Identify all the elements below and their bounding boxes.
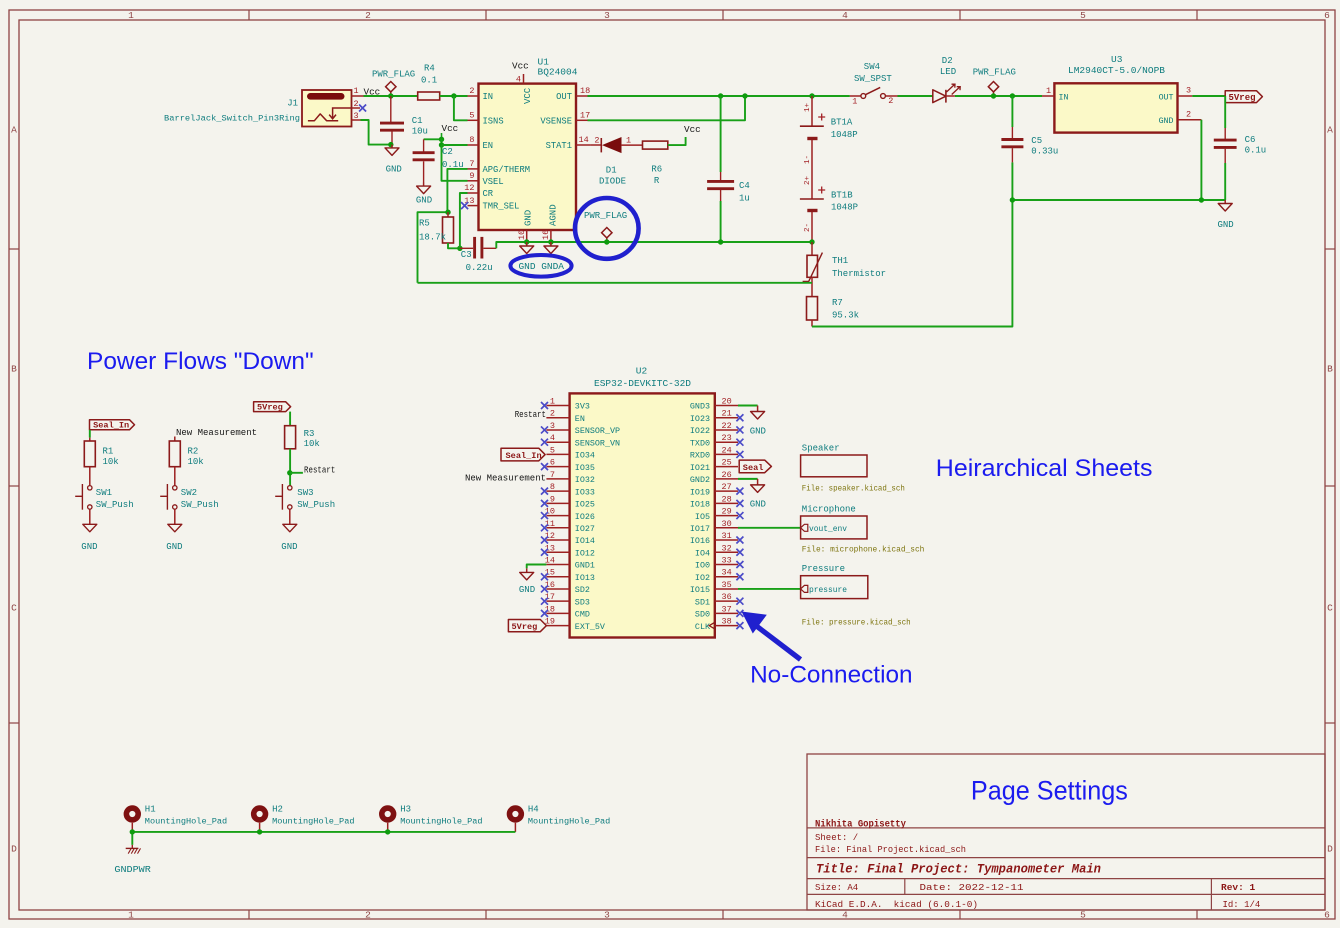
svg-text:6: 6 xyxy=(550,458,555,468)
svg-text:IO16: IO16 xyxy=(690,536,710,546)
SW2 to GND xyxy=(174,509,176,524)
U2 pin13 IO12 xyxy=(546,551,569,553)
svg-text:1: 1 xyxy=(626,136,631,146)
global label Seal at U2 pin25 xyxy=(739,460,771,473)
svg-text:GND: GND xyxy=(386,165,402,175)
diode D2 LED xyxy=(933,90,946,103)
svg-text:IO18: IO18 xyxy=(690,500,710,510)
svg-text:Seal_In: Seal_In xyxy=(506,451,542,461)
svg-text:Vcc: Vcc xyxy=(512,61,529,72)
svg-text:D1: D1 xyxy=(606,166,617,176)
U1 pin10 GND bottom xyxy=(526,230,528,242)
svg-text:IN: IN xyxy=(483,92,494,102)
resistor R3 xyxy=(285,426,296,449)
svg-text:SW3: SW3 xyxy=(297,488,313,498)
svg-text:IO15: IO15 xyxy=(690,585,710,595)
svg-text:2: 2 xyxy=(353,99,358,109)
svg-text:IO13: IO13 xyxy=(575,573,595,583)
U2 pin16 SD2 xyxy=(546,588,569,590)
svg-text:PWR_FLAG: PWR_FLAG xyxy=(973,67,1016,77)
svg-text:1: 1 xyxy=(128,909,134,920)
svg-text:pressure: pressure xyxy=(809,585,847,595)
svg-text:GND: GND xyxy=(166,542,182,552)
J1 pin2 no-connect xyxy=(352,107,361,109)
power flag PWR_FLAG circled xyxy=(602,228,612,243)
svg-text:Microphone: Microphone xyxy=(802,505,856,515)
svg-text:BT1A: BT1A xyxy=(831,118,853,128)
wire R4 to U1 IN xyxy=(440,95,468,97)
U1 pin5 ISNS xyxy=(468,119,479,121)
wire C2 top to Vcc node xyxy=(424,138,442,140)
microcontroller U2 ESP32 body xyxy=(570,393,715,637)
svg-text:5: 5 xyxy=(1080,10,1086,21)
svg-text:IO22: IO22 xyxy=(690,426,710,436)
junction pin10 GND rail xyxy=(524,239,529,244)
svg-text:AGND: AGND xyxy=(549,204,559,226)
svg-text:IO26: IO26 xyxy=(575,512,595,522)
svg-text:10: 10 xyxy=(517,230,527,240)
U1 pin13 TMR_SEL no-connect xyxy=(468,205,479,207)
svg-text:6: 6 xyxy=(1324,909,1330,920)
svg-text:File: Final Project.kicad_sch: File: Final Project.kicad_sch xyxy=(815,845,966,855)
svg-text:0.1u: 0.1u xyxy=(1245,146,1267,156)
svg-text:DIODE: DIODE xyxy=(599,177,626,187)
svg-text:IO0: IO0 xyxy=(695,561,710,571)
svg-text:IO14: IO14 xyxy=(575,536,595,546)
power flag PWR_FLAG near U3 xyxy=(988,82,998,97)
svg-text:1: 1 xyxy=(1046,86,1051,96)
U2 pin21 IO23 xyxy=(715,417,738,419)
svg-text:95.3k: 95.3k xyxy=(832,311,859,321)
ground below U1 pin10 xyxy=(526,242,528,246)
wire R6 to Vcc xyxy=(668,137,686,145)
wire Restart stub xyxy=(290,472,303,474)
svg-text:GND: GND xyxy=(519,585,535,595)
svg-text:25: 25 xyxy=(722,458,732,468)
U1 pin14 STAT1 xyxy=(576,144,591,146)
wire U3 OUT to 5Vreg label xyxy=(1192,95,1225,97)
U2 pin4 SENSOR_VN xyxy=(546,441,569,443)
ground at U2 pin20 xyxy=(757,406,759,412)
J1 pin3 stub xyxy=(352,119,361,121)
ground right rail xyxy=(1224,200,1226,204)
svg-text:0.33u: 0.33u xyxy=(1031,146,1058,156)
svg-text:IO2: IO2 xyxy=(695,573,710,583)
svg-text:Vcc: Vcc xyxy=(684,124,701,135)
svg-text:R6: R6 xyxy=(651,164,662,174)
wire D2 to U3 xyxy=(955,95,1042,97)
global label 5Vreg right xyxy=(1225,91,1262,103)
svg-text:GND: GND xyxy=(1217,220,1233,230)
ground below SW2 xyxy=(174,523,176,525)
svg-text:A: A xyxy=(11,125,17,136)
svg-text:A: A xyxy=(1327,125,1333,136)
battery BT1B xyxy=(811,140,813,199)
U2 pin28 IO18 xyxy=(715,502,738,504)
svg-text:C: C xyxy=(1327,603,1333,614)
battery bottom pin xyxy=(811,212,813,242)
sheet Pressure xyxy=(801,576,868,599)
svg-text:32: 32 xyxy=(722,543,732,553)
op-amp U1 BQ24004 body xyxy=(479,84,577,230)
svg-text:5: 5 xyxy=(469,111,474,121)
svg-text:IN: IN xyxy=(1059,93,1069,102)
junction PWR_FLAG2 xyxy=(991,93,996,98)
svg-text:IO34: IO34 xyxy=(575,451,595,461)
svg-text:C: C xyxy=(11,603,17,614)
svg-text:H4: H4 xyxy=(528,804,539,814)
svg-text:TXD0: TXD0 xyxy=(690,438,710,448)
svg-text:37: 37 xyxy=(722,604,732,614)
mounting hole H3 xyxy=(382,808,394,820)
J1 sleeve bar xyxy=(307,93,345,100)
wire U2 pin30 to Microphone sheet xyxy=(738,527,801,529)
svg-text:18: 18 xyxy=(580,86,590,96)
svg-text:23: 23 xyxy=(722,433,732,443)
svg-text:18.7k: 18.7k xyxy=(419,233,446,243)
resistor R7 xyxy=(807,297,818,320)
svg-text:8: 8 xyxy=(550,482,555,492)
U2 pin20 GND3 xyxy=(715,405,738,407)
wire EN node down to VSEL xyxy=(442,145,468,181)
svg-text:SENSOR_VN: SENSOR_VN xyxy=(575,438,620,448)
svg-text:GNDPWR: GNDPWR xyxy=(114,864,151,875)
wire GND rail right xyxy=(1012,199,1225,201)
svg-text:10u: 10u xyxy=(412,126,428,136)
svg-text:7: 7 xyxy=(550,470,555,480)
svg-text:1: 1 xyxy=(550,397,555,407)
svg-text:33: 33 xyxy=(722,555,732,565)
sheet pin vout_env xyxy=(801,524,808,531)
junction Restart node xyxy=(287,470,292,475)
wire U2 pin14 GND1 xyxy=(527,564,547,568)
junction VSENSE riser xyxy=(742,93,747,98)
svg-text:R7: R7 xyxy=(832,298,843,308)
svg-text:1u: 1u xyxy=(739,194,750,204)
title block column lines xyxy=(904,879,906,895)
wire OUT rail xyxy=(588,95,850,97)
svg-text:R1: R1 xyxy=(103,447,114,457)
svg-text:IO12: IO12 xyxy=(575,548,595,558)
U2 pin15 IO13 xyxy=(546,576,569,578)
svg-text:1: 1 xyxy=(353,86,358,96)
svg-text:H2: H2 xyxy=(272,804,283,814)
wire R7 bottom to GND riser xyxy=(811,320,813,327)
svg-text:GND: GND xyxy=(81,542,97,552)
wire lower rail to TH1/R7 node xyxy=(418,282,813,284)
svg-text:3V3: 3V3 xyxy=(575,402,590,412)
svg-text:EN: EN xyxy=(575,414,585,424)
svg-text:IO33: IO33 xyxy=(575,487,595,497)
svg-text:U3: U3 xyxy=(1111,54,1123,65)
junction C1 bottom / J1 pin3 xyxy=(388,142,393,147)
sheet Speaker xyxy=(801,455,867,477)
svg-text:C1: C1 xyxy=(412,116,423,126)
U1 pin9 VSEL xyxy=(468,180,479,182)
junction battery/GND rail xyxy=(809,239,814,244)
svg-text:PWR_FLAG: PWR_FLAG xyxy=(584,211,627,221)
U1 pin18 OUT xyxy=(576,95,588,97)
U1 pin12 CR xyxy=(468,192,479,194)
svg-text:5: 5 xyxy=(550,445,555,455)
wire SW4 to D2 xyxy=(898,95,933,97)
svg-text:16: 16 xyxy=(545,580,555,590)
svg-text:SW2: SW2 xyxy=(181,488,197,498)
U1 pin17 VSENSE xyxy=(576,119,588,121)
svg-text:R2: R2 xyxy=(188,447,199,457)
SW3 to GND xyxy=(289,509,291,524)
svg-text:Heirarchical Sheets: Heirarchical Sheets xyxy=(936,455,1153,482)
svg-text:VCC: VCC xyxy=(523,87,533,104)
J1 pin2 internal arrow xyxy=(329,108,351,119)
svg-text:CR: CR xyxy=(483,189,494,199)
svg-text:38: 38 xyxy=(722,617,732,627)
svg-text:D: D xyxy=(11,844,17,855)
sheet Microphone xyxy=(801,516,867,539)
svg-text:12: 12 xyxy=(464,183,474,193)
svg-text:2: 2 xyxy=(1186,110,1191,120)
svg-text:H3: H3 xyxy=(400,804,411,814)
wire U2 pin35 to Pressure sheet xyxy=(738,588,801,590)
U2 pin32 IO4 xyxy=(715,551,738,553)
U2 pin22 IO22 xyxy=(715,429,738,431)
SW1 to GND xyxy=(89,509,91,524)
svg-text:IO27: IO27 xyxy=(575,524,595,534)
svg-text:4: 4 xyxy=(516,75,521,85)
wire U3 GND drop xyxy=(1200,120,1202,200)
svg-text:Sheet: /: Sheet: / xyxy=(815,833,858,843)
svg-text:R4: R4 xyxy=(424,64,435,74)
ground below SW3 xyxy=(289,523,291,525)
svg-text:CLK: CLK xyxy=(695,622,711,632)
svg-text:3: 3 xyxy=(604,909,610,920)
svg-text:MountingHole_Pad: MountingHole_Pad xyxy=(272,817,354,827)
svg-text:4: 4 xyxy=(842,909,848,920)
U1 pin4 VCC top xyxy=(523,74,525,84)
junction R4/ISNS xyxy=(451,93,456,98)
svg-text:RXD0: RXD0 xyxy=(690,451,710,461)
U1 pin8 EN xyxy=(468,144,479,146)
J1 switch zigzag xyxy=(308,114,338,121)
svg-text:SW_Push: SW_Push xyxy=(96,500,134,510)
svg-text:3: 3 xyxy=(1186,86,1191,96)
wire EN xyxy=(442,144,468,146)
regulator U3 LM2940 body xyxy=(1054,83,1177,132)
U2 pin14 GND1 xyxy=(546,563,569,565)
svg-text:Id: 1/4: Id: 1/4 xyxy=(1223,900,1261,910)
U2 pin30 IO17 xyxy=(715,527,738,529)
capacitor C1 xyxy=(390,96,392,123)
junction EN node xyxy=(439,142,444,147)
svg-text:SW_Push: SW_Push xyxy=(181,500,219,510)
svg-text:OUT: OUT xyxy=(556,92,572,102)
svg-text:10: 10 xyxy=(545,507,555,517)
wire J1 pin3 to C1 bottom node xyxy=(361,120,391,145)
wire VSENSE to rail riser xyxy=(588,96,746,120)
U2 pin34 IO2 xyxy=(715,576,738,578)
U2 pin1 3V3 xyxy=(546,405,569,407)
svg-text:8: 8 xyxy=(469,135,474,145)
svg-text:2: 2 xyxy=(594,136,599,146)
svg-text:18: 18 xyxy=(545,604,555,614)
svg-text:2: 2 xyxy=(365,909,371,920)
power flag PWR_FLAG top-left xyxy=(386,82,396,97)
U3 pin2 GND xyxy=(1178,119,1202,121)
mounting hole H1 xyxy=(126,808,138,820)
svg-text:Seal_In: Seal_In xyxy=(93,421,129,431)
U2 pin18 CMD xyxy=(546,612,569,614)
ground below C2 xyxy=(423,183,425,187)
mounting hole H2 xyxy=(254,808,266,820)
U1 pin7 APG/THERM xyxy=(468,168,479,170)
svg-text:16: 16 xyxy=(541,230,551,240)
svg-text:C4: C4 xyxy=(739,181,750,191)
U2 pin35 IO15 xyxy=(715,588,738,590)
ground at U2 pin14 xyxy=(526,568,528,572)
svg-text:0.22u: 0.22u xyxy=(466,263,493,273)
svg-text:5Vreg: 5Vreg xyxy=(257,403,283,413)
svg-text:New Measurement: New Measurement xyxy=(465,473,546,483)
annotation blue ellipse around GND GNDA xyxy=(510,255,571,277)
svg-text:GND: GND xyxy=(524,210,534,226)
U2 pin31 IO16 xyxy=(715,539,738,541)
U2 pin23 TXD0 xyxy=(715,441,738,443)
global label Seal_In at U2 pin5 xyxy=(501,448,545,461)
resistor R6 xyxy=(643,141,668,149)
svg-text:2: 2 xyxy=(550,409,555,419)
mounting hole H4 xyxy=(510,808,522,820)
svg-text:GND2: GND2 xyxy=(690,475,710,485)
wire 5Vreg to R3 xyxy=(289,412,291,426)
svg-text:34: 34 xyxy=(722,568,732,578)
svg-text:SD0: SD0 xyxy=(695,610,710,620)
U2 pin38 CLK xyxy=(715,625,738,627)
svg-text:C6: C6 xyxy=(1245,135,1256,145)
wire CR branch xyxy=(460,193,468,248)
svg-text:Speaker: Speaker xyxy=(802,443,840,453)
svg-text:36: 36 xyxy=(722,592,732,602)
svg-text:TMR_SEL: TMR_SEL xyxy=(483,202,520,212)
svg-text:B: B xyxy=(1327,364,1333,375)
svg-text:IO23: IO23 xyxy=(690,414,710,424)
svg-text:IO21: IO21 xyxy=(690,463,710,473)
svg-text:Page Settings: Page Settings xyxy=(971,776,1128,806)
svg-text:J1: J1 xyxy=(287,99,298,109)
title block row lines xyxy=(807,827,1325,829)
svg-text:SD1: SD1 xyxy=(695,597,710,607)
svg-text:0.1: 0.1 xyxy=(421,76,437,86)
svg-text:2+: 2+ xyxy=(804,175,812,185)
svg-text:SENSOR_VP: SENSOR_VP xyxy=(575,426,620,436)
frame column ticks top/bottom xyxy=(248,10,250,20)
junction C5 GND rail xyxy=(1010,197,1015,202)
svg-text:Title: Final Project: Tympanom: Title: Final Project: Tympanometer Main xyxy=(816,862,1101,876)
U3 pin3 OUT xyxy=(1178,95,1193,97)
junction R5 top xyxy=(445,210,450,215)
svg-text:5Vreg: 5Vreg xyxy=(1229,93,1256,103)
svg-text:10k: 10k xyxy=(304,439,320,449)
svg-text:LED: LED xyxy=(940,67,956,77)
svg-text:R5: R5 xyxy=(419,219,430,229)
svg-text:9: 9 xyxy=(469,171,474,181)
capacitor C2 xyxy=(423,139,425,152)
switch SW4 SW_SPST xyxy=(850,95,861,97)
svg-text:24: 24 xyxy=(722,445,732,455)
svg-text:Seal: Seal xyxy=(743,463,764,473)
svg-text:4: 4 xyxy=(550,433,555,443)
resistor R5 xyxy=(447,212,449,217)
U2 pin9 IO25 xyxy=(546,502,569,504)
svg-text:BT1B: BT1B xyxy=(831,190,853,200)
svg-text:Power Flows "Down": Power Flows "Down" xyxy=(87,348,314,375)
wire C3 right to GND rail xyxy=(496,242,812,248)
U2 pin5 IO34 xyxy=(546,453,569,455)
resistor R4 xyxy=(418,92,440,100)
svg-text:SD2: SD2 xyxy=(575,585,590,595)
svg-text:BQ24004: BQ24004 xyxy=(538,67,578,78)
U2 pin37 SD0 xyxy=(715,612,738,614)
svg-text:H1: H1 xyxy=(145,804,156,814)
title block outline xyxy=(807,754,1325,910)
resistor R2 xyxy=(169,441,180,467)
wire ISNS branch xyxy=(454,96,468,120)
svg-text:2-: 2- xyxy=(804,223,812,232)
svg-text:5: 5 xyxy=(1080,909,1086,920)
svg-text:Size: A4: Size: A4 xyxy=(815,883,858,893)
capacitor C5 xyxy=(1011,96,1013,127)
svg-text:VSENSE: VSENSE xyxy=(540,116,572,126)
junction H2 xyxy=(257,829,262,834)
svg-text:STAT1: STAT1 xyxy=(546,141,572,151)
svg-text:7: 7 xyxy=(469,159,474,169)
global label 5Vreg mid column xyxy=(254,402,291,412)
junction C4 drop xyxy=(718,93,723,98)
U2 pin26 GND2 xyxy=(715,478,738,480)
svg-text:New Measurement: New Measurement xyxy=(176,428,257,438)
U3 pin1 IN xyxy=(1042,95,1054,97)
svg-text:GND: GND xyxy=(416,195,432,205)
svg-text:13: 13 xyxy=(545,543,555,553)
svg-text:3: 3 xyxy=(353,111,358,121)
svg-text:15: 15 xyxy=(545,568,555,578)
junction at PWR_FLAG/C1 top xyxy=(388,93,393,98)
U2 pin33 IO0 xyxy=(715,563,738,565)
svg-text:SW4: SW4 xyxy=(864,62,880,72)
wire U2 pin20 GND3 xyxy=(738,405,758,407)
svg-text:APG/THERM: APG/THERM xyxy=(483,165,531,175)
svg-text:20: 20 xyxy=(722,397,732,407)
sheet pin pressure xyxy=(801,585,808,592)
junction C4 bottom GND rail xyxy=(718,239,723,244)
connector J1 barrel jack body xyxy=(302,90,352,127)
svg-text:2: 2 xyxy=(469,86,474,96)
svg-text:1: 1 xyxy=(852,97,857,107)
ground below U1 pin16 xyxy=(550,242,552,246)
U2 pin29 IO5 xyxy=(715,515,738,517)
switch SW2 SW_Push xyxy=(173,486,177,490)
capacitor C3 xyxy=(460,247,473,249)
svg-text:12: 12 xyxy=(545,531,555,541)
svg-text:1-: 1- xyxy=(804,155,812,164)
R1 to SW1 xyxy=(89,467,91,486)
U2 pin27 IO19 xyxy=(715,490,738,492)
svg-text:6: 6 xyxy=(1324,10,1330,21)
svg-text:B: B xyxy=(11,364,17,375)
U2 pin11 IO27 xyxy=(546,527,569,529)
svg-text:IO4: IO4 xyxy=(695,548,710,558)
svg-text:3: 3 xyxy=(604,10,610,21)
svg-text:30: 30 xyxy=(722,519,732,529)
